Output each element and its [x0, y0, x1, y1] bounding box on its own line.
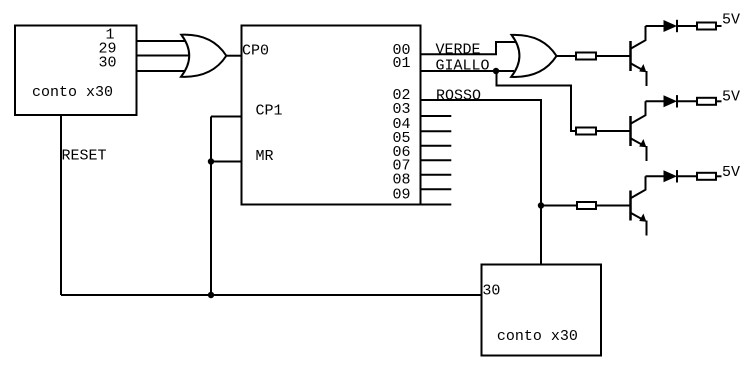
diode D2	[664, 95, 678, 107]
wire stub output 04	[421, 130, 452, 132]
svg-text:conto x30: conto x30	[32, 84, 113, 101]
wire stub output 06	[421, 159, 452, 161]
junction MR node	[208, 158, 214, 164]
svg-text:5V: 5V	[722, 89, 740, 106]
driver stage 3 (ROSSO lamp)	[577, 164, 740, 236]
diode D3	[664, 170, 678, 182]
wire CP1/MR vertical to reset bus	[210, 117, 212, 296]
or-gate G1	[181, 35, 226, 77]
wire U1 pin 1 to OR gate G1 input	[137, 40, 188, 42]
svg-text:09: 09	[392, 186, 410, 203]
wire R1 to Q1 base	[596, 55, 630, 57]
svg-text:RESET: RESET	[62, 148, 107, 165]
transistor Q2	[631, 101, 647, 161]
resistor R2	[697, 23, 716, 30]
wire R3 to Q2 base	[596, 130, 630, 132]
wire GIALLO U2 O1 to G2 bottom input	[421, 70, 515, 72]
wire R5 to Q3 base	[596, 205, 630, 207]
resistor R1	[576, 53, 596, 60]
transistor Q1	[631, 26, 647, 86]
svg-text:conto x30: conto x30	[497, 328, 578, 345]
wire U2 MR	[211, 161, 242, 163]
counter U2 box	[242, 26, 421, 205]
emitter arrow Q1	[639, 64, 646, 72]
wire GIALLO branch to R3	[497, 71, 577, 131]
counter U1 box	[15, 26, 137, 116]
driver stage 1 (VERDE lamp)	[576, 12, 740, 87]
junction GIALLO node	[493, 68, 499, 74]
junction ROSSO node	[538, 202, 544, 208]
svg-text:01: 01	[392, 55, 410, 72]
or-gate G2	[511, 35, 556, 77]
wire R6 to 5V	[716, 175, 722, 177]
wire ROSSO U2 O2 down to U3	[421, 100, 542, 265]
resistor R5	[577, 202, 596, 209]
resistor R6	[697, 173, 716, 180]
wire U1 pin 30 to OR gate G1 input	[137, 70, 188, 72]
junction reset bus node	[208, 292, 214, 298]
svg-text:CP0: CP0	[242, 43, 269, 60]
resistor R3	[576, 128, 596, 135]
wire stub output 09	[421, 204, 452, 206]
wire U1 pin 29 to OR gate G1 input	[137, 55, 191, 57]
svg-text:5V: 5V	[722, 164, 740, 181]
svg-text:30: 30	[482, 283, 500, 300]
svg-text:ROSSO: ROSSO	[436, 88, 481, 105]
transistor Q3	[631, 176, 647, 235]
svg-text:CP1: CP1	[256, 102, 283, 119]
svg-text:5V: 5V	[722, 12, 740, 29]
wire stub output 08	[421, 188, 452, 190]
wire stub output 03	[421, 115, 452, 117]
emitter arrow Q3	[639, 214, 646, 222]
wire reset bus horizontal to U3	[61, 294, 482, 296]
wire D1 to R2	[677, 25, 697, 27]
wire VERDE U2 O0 to G2 top input	[421, 42, 518, 54]
wire R4 to 5V	[716, 100, 722, 102]
wire U2 CP1	[211, 116, 242, 118]
wire ROSSO branch to R5	[541, 205, 577, 207]
wire stub output 07	[421, 174, 452, 176]
wire Q2 collector to D2	[646, 100, 664, 102]
svg-text:VERDE: VERDE	[436, 42, 481, 59]
wire Q3 collector to D3	[646, 175, 664, 177]
wire Q1 collector to D1	[646, 25, 664, 27]
svg-text:MR: MR	[256, 148, 274, 165]
driver stage 2 (GIALLO lamp)	[576, 89, 740, 162]
wire R2 to 5V	[716, 25, 722, 27]
svg-text:GIALLO: GIALLO	[436, 57, 490, 74]
svg-text:30: 30	[98, 54, 116, 71]
wire G2 output to R1	[557, 55, 577, 57]
wire stub output 05	[421, 145, 452, 147]
wire RESET vertical from U1	[60, 115, 62, 295]
resistor R4	[697, 98, 716, 105]
emitter arrow Q2	[639, 139, 646, 147]
wire D3 to R6	[677, 175, 697, 177]
counter U3 box	[482, 265, 602, 356]
wire G1 output to U2 CP0	[227, 55, 242, 57]
wire D2 to R4	[677, 100, 697, 102]
diode D1	[664, 20, 678, 32]
